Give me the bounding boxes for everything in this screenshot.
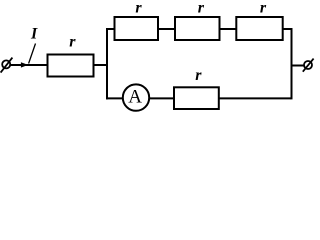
svg-text:r: r [69, 33, 76, 50]
svg-text:r: r [135, 0, 142, 17]
svg-text:r: r [260, 0, 267, 17]
svg-text:r: r [198, 0, 205, 17]
svg-text:A: A [128, 87, 142, 108]
svg-text:r: r [195, 67, 202, 84]
svg-text:I: I [30, 26, 38, 43]
